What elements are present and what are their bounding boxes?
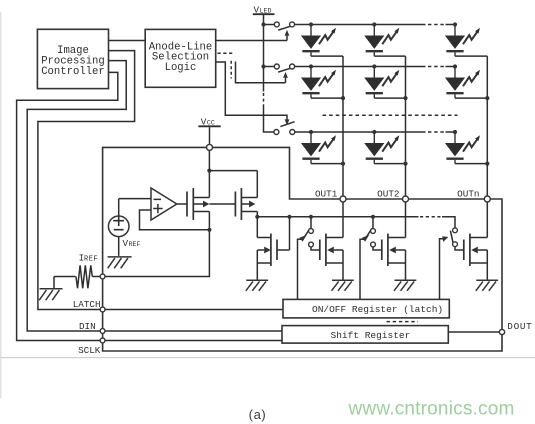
svg-text:(a): (a) [249, 407, 267, 422]
svg-text:V: V [123, 238, 129, 249]
svg-text:DIN: DIN [79, 321, 96, 332]
svg-text:LED: LED [260, 7, 272, 14]
svg-text:CC: CC [207, 119, 215, 126]
svg-text:SCLK: SCLK [78, 345, 101, 356]
svg-text:REF: REF [84, 255, 98, 263]
svg-text:Controller: Controller [41, 66, 105, 78]
svg-text:Logic: Logic [165, 62, 197, 74]
svg-text:OUTn: OUTn [457, 188, 479, 199]
svg-text:REF: REF [129, 241, 141, 248]
svg-text:OUT1: OUT1 [315, 188, 338, 199]
svg-text:OUT2: OUT2 [377, 188, 399, 199]
svg-text:Shift Register: Shift Register [331, 330, 411, 341]
svg-text:www.cntronics.com: www.cntronics.com [348, 399, 515, 420]
svg-text:DOUT: DOUT [507, 321, 532, 332]
svg-text:V: V [201, 116, 207, 127]
svg-text:V: V [254, 4, 260, 15]
svg-text:ON/OFF Register (latch): ON/OFF Register (latch) [312, 304, 443, 315]
svg-text:LATCH: LATCH [73, 299, 101, 310]
